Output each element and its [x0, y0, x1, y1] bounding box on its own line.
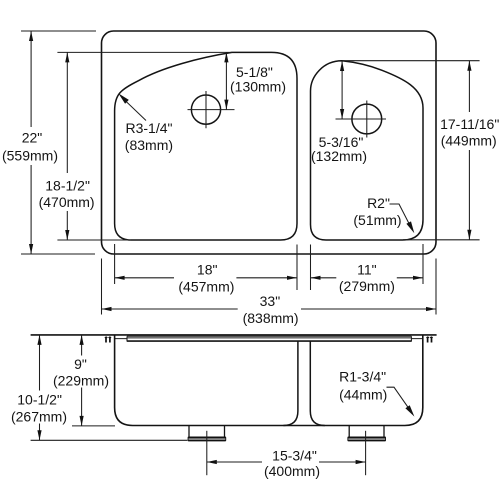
svg-text:15-3/4": 15-3/4"	[272, 448, 317, 464]
svg-text:(267mm): (267mm)	[11, 409, 67, 425]
dimension 10-1/2" bottom extension	[31, 439, 188, 441]
dimension 22" line	[30, 31, 32, 254]
svg-text:33": 33"	[260, 293, 281, 309]
svg-text:(130mm): (130mm)	[230, 79, 286, 95]
dimension 5-3/16" line	[341, 61, 343, 119]
svg-text:17-11/16": 17-11/16"	[440, 116, 499, 132]
svg-text:(470mm): (470mm)	[39, 194, 95, 210]
right faucet hole	[352, 104, 382, 134]
right drain flange	[347, 437, 386, 442]
svg-text:(132mm): (132mm)	[311, 148, 367, 164]
svg-text:(457mm): (457mm)	[178, 279, 234, 295]
left mounting clip	[106, 338, 110, 343]
svg-text:18-1/2": 18-1/2"	[45, 177, 90, 193]
dimension 33" line	[102, 308, 437, 310]
radius label R2" leader	[390, 204, 410, 225]
svg-text:(279mm): (279mm)	[339, 278, 395, 294]
left bowl outline	[115, 52, 297, 240]
svg-text:(449mm): (449mm)	[441, 132, 497, 148]
dimension 10-1/2" line	[39, 335, 41, 440]
svg-text:R1-3/4": R1-3/4"	[339, 368, 386, 384]
left faucet hole	[191, 95, 220, 124]
svg-text:R2": R2"	[367, 195, 390, 211]
9" bottom extension line	[72, 425, 115, 427]
dimension 5-1/8" line	[225, 52, 227, 109]
right drain centerline	[365, 431, 367, 475]
svg-text:(400mm): (400mm)	[264, 463, 320, 479]
svg-text:(51mm): (51mm)	[353, 212, 401, 228]
svg-text:9": 9"	[74, 356, 87, 372]
bowl divider (front view)	[283, 341, 324, 425]
right mounting clip	[428, 338, 432, 343]
dimension 15-3/4" line	[207, 461, 366, 463]
radius label R1-3/4" leader	[387, 387, 409, 408]
svg-text:18": 18"	[197, 262, 218, 278]
sink outer rim rectangle (plan view)	[102, 31, 437, 254]
svg-text:11": 11"	[357, 261, 377, 277]
countertop line (front view)	[31, 334, 437, 336]
dimension 17-11/16" line	[468, 61, 470, 240]
svg-text:(229mm): (229mm)	[53, 372, 109, 388]
left drain centerline	[206, 431, 208, 475]
dimension 18" line	[115, 277, 297, 279]
right bowl outline	[311, 61, 424, 240]
left faucet hole crosshair	[188, 91, 235, 128]
svg-text:R3-1/4": R3-1/4"	[126, 120, 173, 136]
dimension 18-1/2" extension lines	[57, 52, 232, 240]
rim band (front view)	[127, 336, 411, 341]
svg-text:(559mm): (559mm)	[2, 147, 58, 163]
svg-text:(44mm): (44mm)	[339, 387, 387, 403]
dimension 22" extension lines	[21, 31, 96, 254]
svg-text:(838mm): (838mm)	[243, 310, 299, 326]
dimension 18-1/2" line	[66, 52, 68, 240]
radius label R3-1/4" leader	[126, 101, 147, 121]
right drain body	[349, 426, 384, 437]
right faucet hole crosshair	[336, 101, 387, 138]
svg-text:10-1/2": 10-1/2"	[17, 392, 62, 408]
left drain flange	[188, 437, 227, 442]
svg-text:22": 22"	[22, 129, 43, 145]
rim connector lines	[115, 338, 423, 340]
dimension 17-11/16" extension lines	[343, 61, 480, 240]
dimension 9" line	[81, 335, 83, 426]
extension lines below plan view	[102, 244, 437, 315]
svg-text:(83mm): (83mm)	[125, 137, 173, 153]
left drain body	[189, 426, 225, 437]
sink body outline (front view)	[115, 335, 423, 426]
dimension 11" line	[311, 277, 424, 279]
